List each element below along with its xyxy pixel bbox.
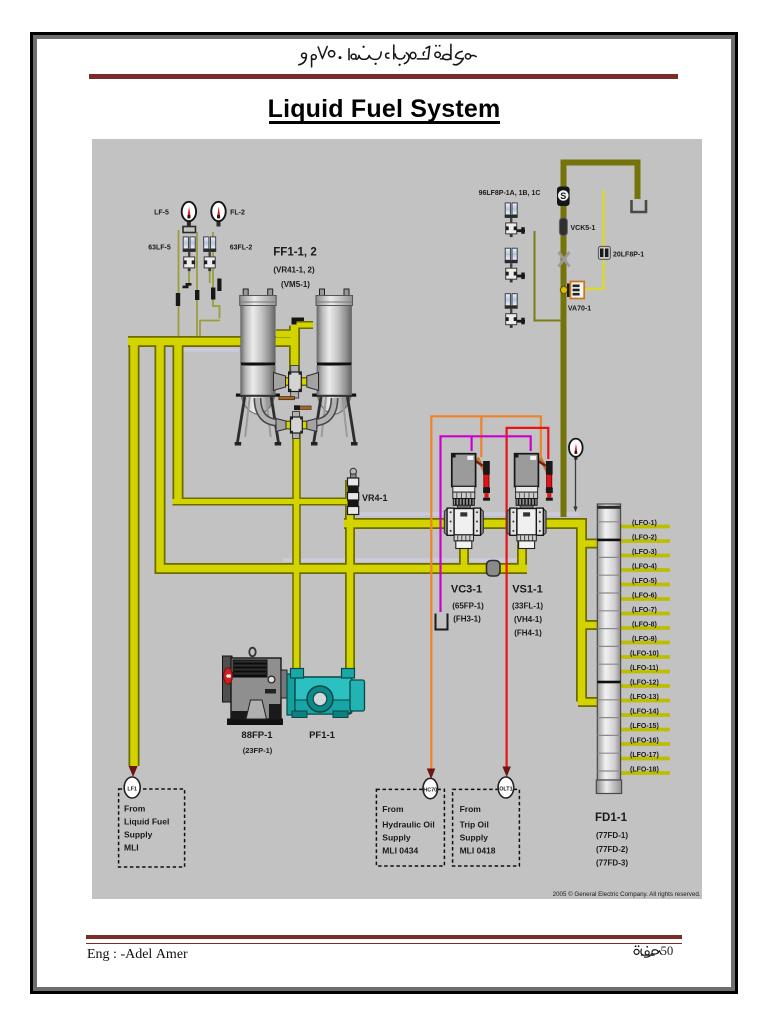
- svg-text:(FH4-1): (FH4-1): [514, 629, 542, 638]
- svg-text:Supply: Supply: [382, 833, 411, 843]
- svg-text:FL-2: FL-2: [230, 210, 245, 217]
- svg-text:(VM5-1): (VM5-1): [281, 280, 310, 289]
- svg-text:From: From: [460, 804, 482, 814]
- svg-text:(LFO-14): (LFO-14): [630, 709, 659, 716]
- svg-text:(77FD-2): (77FD-2): [596, 845, 628, 854]
- svg-text:88FP-1: 88FP-1: [241, 730, 273, 741]
- svg-text:(LFO-7): (LFO-7): [632, 607, 657, 614]
- svg-text:(LFO-11): (LFO-11): [630, 665, 658, 672]
- svg-text:63FL-2: 63FL-2: [230, 245, 253, 252]
- svg-text:63LF-5: 63LF-5: [148, 245, 171, 252]
- svg-text:(VR41-1, 2): (VR41-1, 2): [273, 266, 315, 275]
- svg-text:MLI: MLI: [124, 843, 139, 853]
- svg-text:LF1: LF1: [127, 787, 137, 793]
- svg-text:Supply: Supply: [460, 833, 489, 843]
- svg-text:(LFO-18): (LFO-18): [630, 767, 659, 774]
- svg-text:(LFO-1): (LFO-1): [632, 520, 657, 527]
- svg-text:VC3-1: VC3-1: [451, 584, 482, 596]
- svg-text:(VH4-1): (VH4-1): [514, 615, 542, 624]
- svg-text:(LFO-6): (LFO-6): [632, 593, 657, 600]
- svg-text:(LFO-10): (LFO-10): [630, 651, 659, 658]
- svg-text:VS1-1: VS1-1: [512, 584, 543, 596]
- svg-text:PF1-1: PF1-1: [309, 730, 336, 741]
- svg-text:Hydraulic Oil: Hydraulic Oil: [382, 820, 434, 830]
- svg-text:From: From: [124, 804, 146, 814]
- svg-text:(FH3-1): (FH3-1): [453, 615, 481, 624]
- svg-text:HC70: HC70: [423, 788, 437, 794]
- svg-text:MLI 0434: MLI 0434: [382, 846, 418, 856]
- svg-text:(LFO-13): (LFO-13): [630, 694, 659, 701]
- svg-text:(LFO-2): (LFO-2): [632, 535, 657, 542]
- svg-text:FF1-1, 2: FF1-1, 2: [273, 247, 316, 259]
- svg-text:(77FD-3): (77FD-3): [596, 859, 628, 868]
- svg-text:Supply: Supply: [124, 830, 153, 840]
- svg-text:2005 © General Electric Compan: 2005 © General Electric Company. All rig…: [553, 891, 701, 898]
- svg-text:(65FP-1): (65FP-1): [452, 602, 484, 611]
- svg-text:(LFO-16): (LFO-16): [630, 738, 659, 745]
- svg-text:FD1-1: FD1-1: [595, 812, 628, 824]
- svg-text:(77FD-1): (77FD-1): [596, 831, 628, 840]
- svg-text:(33FL-1): (33FL-1): [512, 602, 543, 611]
- svg-text:20LF8P-1: 20LF8P-1: [613, 252, 644, 259]
- svg-text:(23FP-1): (23FP-1): [243, 746, 273, 755]
- svg-text:(LFO-3): (LFO-3): [632, 549, 657, 556]
- svg-text:(LFO-12): (LFO-12): [630, 680, 659, 687]
- svg-text:VA70-1: VA70-1: [568, 306, 591, 313]
- svg-text:S: S: [560, 191, 566, 201]
- svg-text:MLI 0418: MLI 0418: [460, 846, 496, 856]
- svg-text:(LFO-15): (LFO-15): [630, 723, 659, 730]
- svg-text:(LFO-5): (LFO-5): [632, 578, 657, 585]
- svg-text:OLT1: OLT1: [499, 787, 512, 793]
- svg-text:(LFO-4): (LFO-4): [632, 564, 657, 571]
- svg-text:LF-5: LF-5: [154, 210, 169, 217]
- svg-text:(LFO-9): (LFO-9): [632, 636, 657, 643]
- svg-text:From: From: [382, 804, 404, 814]
- svg-text:96LF8P-1A, 1B, 1C: 96LF8P-1A, 1B, 1C: [479, 190, 541, 197]
- svg-text:VCK5-1: VCK5-1: [571, 225, 596, 232]
- svg-text:(LFO-17): (LFO-17): [630, 752, 659, 759]
- svg-text:VR4-1: VR4-1: [362, 493, 388, 503]
- svg-text:Trip Oil: Trip Oil: [460, 820, 489, 830]
- svg-text:Liquid Fuel: Liquid Fuel: [124, 817, 169, 827]
- svg-text:(LFO-8): (LFO-8): [632, 622, 657, 629]
